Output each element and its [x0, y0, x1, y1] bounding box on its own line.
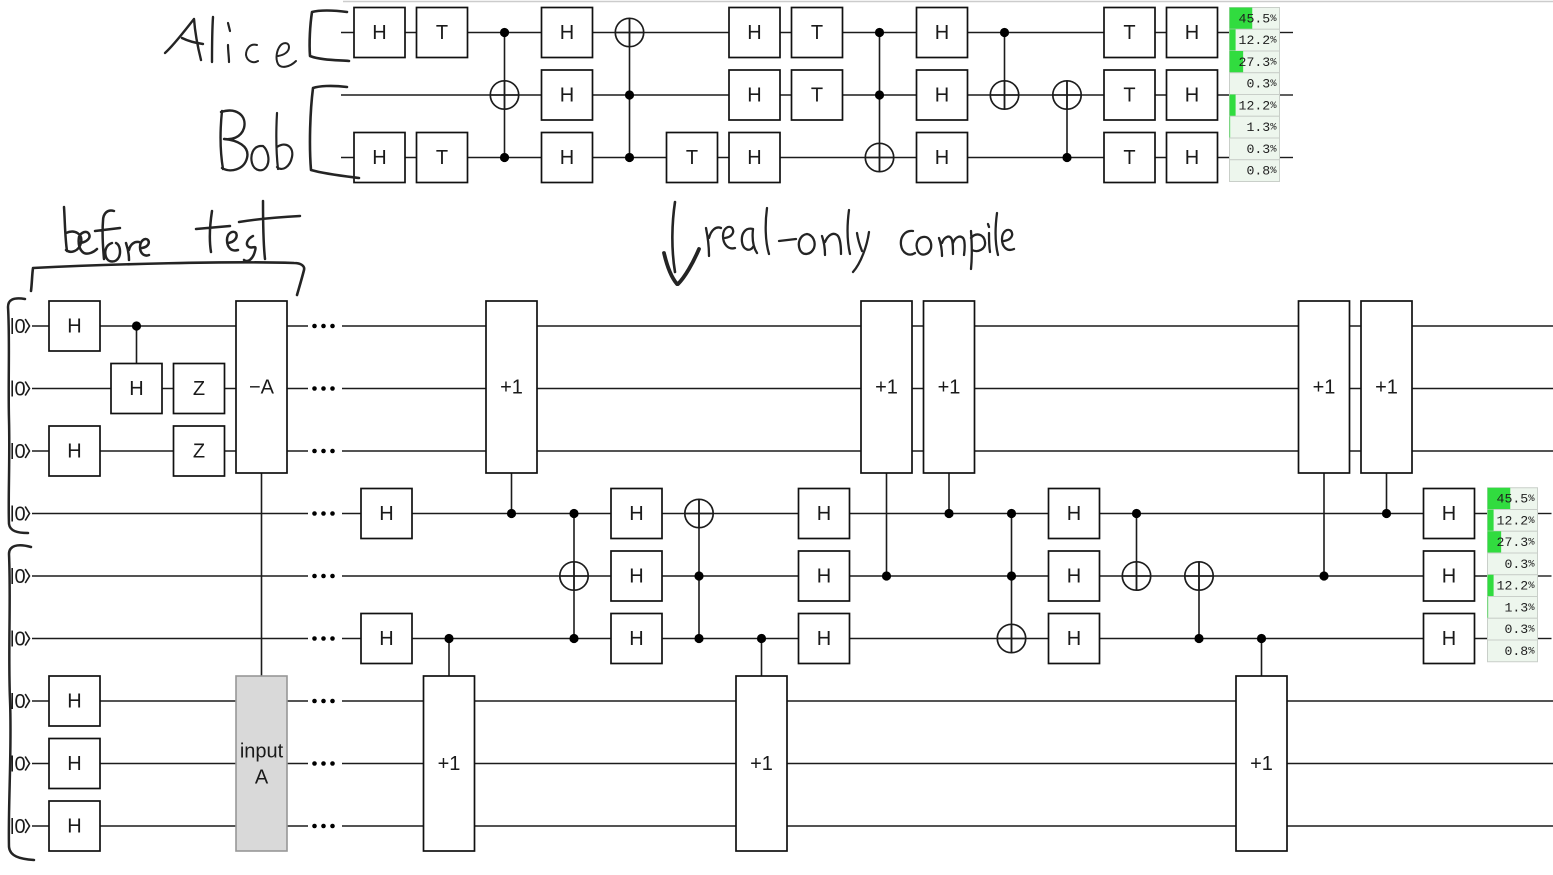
gate H q1 col1 — [354, 8, 405, 58]
gate H q3 col7 — [729, 133, 780, 183]
gate T q2 col8 — [792, 70, 843, 120]
wire b2 left segment — [32, 388, 308, 390]
control q1 col3 — [500, 28, 509, 37]
svg-text:H: H — [379, 503, 393, 525]
gate H b5 mcol17 — [1424, 551, 1475, 601]
gate T q1 col8 — [792, 8, 843, 58]
gate Z b2 precol3 — [174, 364, 225, 414]
svg-text:H: H — [629, 628, 643, 650]
handwriting Alice letter c — [246, 45, 258, 63]
ellipsis wire b5 — [312, 574, 335, 579]
control b6 mcol5 — [694, 634, 703, 643]
gate H b5 mcol4 — [611, 551, 662, 601]
gate H b4 mcol7 — [799, 489, 850, 539]
handwriting real-only — [706, 208, 869, 272]
target q3 col9 — [865, 143, 893, 171]
svg-text:H: H — [1185, 85, 1199, 107]
brace wires b1-b4 — [8, 298, 28, 533]
ket |0> wire b4 — [12, 504, 29, 526]
svg-text:12.2%: 12.2% — [1497, 579, 1536, 594]
svg-text:H: H — [629, 566, 643, 588]
svg-text:+1: +1 — [1250, 753, 1273, 775]
gate +1 b1-b3 mcol15 — [1299, 301, 1350, 473]
ket |0> wire b1 — [12, 316, 29, 338]
svg-text:0: 0 — [14, 441, 25, 463]
target b5 mcol13 — [1185, 562, 1213, 590]
svg-text:H: H — [935, 22, 949, 44]
svg-text:12.2%: 12.2% — [1239, 98, 1278, 113]
CNOT col12 connector — [1066, 81, 1068, 158]
CNOT col9 connector — [879, 33, 881, 172]
control b4 mcol3 — [569, 509, 578, 518]
svg-text:H: H — [379, 628, 393, 650]
svg-text:0: 0 — [14, 504, 25, 526]
svg-text:H: H — [747, 85, 761, 107]
wire b6 main segment — [342, 638, 1488, 640]
wire q3 stub after display — [1280, 157, 1294, 159]
control q2 col9 — [875, 90, 884, 99]
CNOT mcol13 connector — [1198, 562, 1200, 639]
svg-text:H: H — [629, 503, 643, 525]
svg-text:H: H — [935, 147, 949, 169]
gate H q3 col1 — [354, 133, 405, 183]
svg-text:0.3%: 0.3% — [1504, 622, 1535, 637]
target b4 mcol5 — [685, 499, 713, 527]
control b4 mcol12 — [1132, 509, 1141, 518]
svg-text:0.8%: 0.8% — [1246, 164, 1277, 179]
control b6 mcol13 — [1194, 634, 1203, 643]
svg-text:45.5%: 45.5% — [1497, 492, 1536, 507]
gate H b4 mcol0 — [361, 489, 412, 539]
svg-text:−A: −A — [249, 377, 275, 399]
svg-text:+1: +1 — [875, 377, 898, 399]
target b6 mcol10 — [997, 624, 1025, 652]
gate +1 b1-b3 mcol9 — [924, 301, 975, 473]
gate T q1 col13 — [1104, 8, 1155, 58]
connector +1 mcol2 to control b4 — [511, 473, 513, 514]
handwriting Bob letter b — [276, 113, 292, 169]
control q3 col3 — [500, 153, 509, 162]
ket |0> wire b2 — [12, 379, 29, 401]
wire q2 — [341, 94, 1230, 96]
wire b6 stub after display — [1538, 638, 1552, 640]
svg-text:0: 0 — [14, 566, 25, 588]
svg-text:+1: +1 — [1313, 377, 1336, 399]
svg-text:H: H — [1185, 147, 1199, 169]
wire b5 stub after display — [1538, 575, 1552, 577]
gate H b4 mcol11 — [1049, 489, 1100, 539]
gate +1 b7-b9 mcol6 — [736, 676, 787, 851]
gate H q1 col10 — [917, 8, 968, 58]
gate H q2 col4 — [542, 70, 593, 120]
CNOT col5 connector — [629, 18, 631, 157]
wire b1 main segment — [342, 325, 1553, 327]
gate +1 b1-b3 mcol16 — [1361, 301, 1412, 473]
target q2 col3 — [490, 81, 518, 109]
handwriting Bob letter o — [251, 146, 268, 170]
CNOT mcol10 connector — [1011, 514, 1013, 653]
probability display bottom circuit — [1488, 488, 1538, 662]
handwriting Alice letter A — [165, 19, 203, 60]
wire b2 main segment — [342, 388, 1553, 390]
gate H q2 col10 — [917, 70, 968, 120]
gate H b6 mcol17 — [1424, 614, 1475, 664]
wire b4 left segment — [32, 513, 308, 515]
controlled-H connector b1-b2 — [136, 326, 138, 364]
target q1 col5 — [615, 18, 643, 46]
gate +1 b7-b9 mcol14 — [1236, 676, 1287, 851]
svg-text:H: H — [817, 566, 831, 588]
connector +1 mcol1 to control b6 — [448, 639, 450, 677]
wire b7 left segment — [32, 700, 308, 702]
connector +1 mcol9 to control b4 — [948, 473, 950, 514]
control b6 mcol3 — [569, 634, 578, 643]
connector +1 mcol15 to control b5 — [1323, 473, 1325, 576]
ket |0> wire b6 — [12, 629, 29, 651]
connector +1 mcol6 to control b6 — [761, 639, 763, 677]
gate H b4 mcol4 — [611, 489, 662, 539]
handwriting before-test word test — [196, 201, 300, 261]
ellipsis wire b1 — [312, 324, 335, 329]
control q3 col5 — [625, 153, 634, 162]
gate -A b1-b3 — [236, 301, 287, 473]
svg-text:H: H — [129, 378, 143, 400]
wire b9 left segment — [32, 825, 308, 827]
svg-text:H: H — [560, 22, 574, 44]
control q1 col11 — [1000, 28, 1009, 37]
svg-text:H: H — [67, 691, 81, 713]
brace wires b5-b9 — [9, 545, 34, 860]
svg-text:0.3%: 0.3% — [1246, 142, 1277, 157]
wire q1 stub after display — [1280, 32, 1294, 34]
svg-text:0.3%: 0.3% — [1246, 77, 1277, 92]
control b6 mcol1 — [444, 634, 453, 643]
bracket Alice — [310, 11, 349, 62]
gate +1 b1-b3 mcol2 — [486, 301, 537, 473]
svg-text:A: A — [255, 767, 269, 789]
ket |0> wire b9 — [12, 816, 29, 838]
connector +1 mcol14 to control b6 — [1261, 639, 1263, 677]
wire b4 main segment — [342, 513, 1488, 515]
ellipsis wire b6 — [312, 636, 335, 641]
CNOT mcol5 connector — [698, 499, 700, 638]
CNOT mcol3 connector — [573, 514, 575, 639]
ellipsis wire b4 — [312, 511, 335, 516]
svg-text:1.3%: 1.3% — [1504, 600, 1535, 615]
gate T q3 col2 — [417, 133, 468, 183]
ket |0> wire b8 — [12, 754, 29, 776]
svg-text:1.3%: 1.3% — [1246, 120, 1277, 135]
control b4 mcol9 — [944, 509, 953, 518]
handwriting Bob letter B — [221, 111, 248, 171]
gate H b3 precol1 — [49, 426, 100, 476]
ellipsis wire b8 — [312, 761, 335, 766]
gate H b5 mcol11 — [1049, 551, 1100, 601]
control b4 mcol10 — [1007, 509, 1016, 518]
svg-text:H: H — [1067, 503, 1081, 525]
svg-text:+1: +1 — [500, 377, 523, 399]
handwriting Alice letter i — [228, 23, 230, 62]
svg-text:H: H — [817, 628, 831, 650]
ket |0> wire b7 — [12, 691, 29, 713]
control b4 mcol2 — [507, 509, 516, 518]
svg-text:0: 0 — [14, 629, 25, 651]
gate T q3 col13 — [1104, 133, 1155, 183]
svg-text:H: H — [1185, 22, 1199, 44]
control b4 mcol16 — [1382, 509, 1391, 518]
svg-text:0: 0 — [14, 316, 25, 338]
wire b5 left segment — [32, 575, 308, 577]
svg-text:input: input — [240, 741, 284, 763]
svg-text:Z: Z — [193, 378, 205, 400]
control q3 col12 — [1062, 153, 1071, 162]
svg-text:H: H — [1442, 566, 1456, 588]
control b5 mcol15 — [1319, 571, 1328, 580]
control b5 mcol8 — [882, 571, 891, 580]
target q2 col11 — [990, 81, 1018, 109]
CNOT col3 connector — [504, 33, 506, 158]
svg-text:T: T — [811, 85, 823, 107]
control q2 col5 — [625, 90, 634, 99]
svg-text:0.8%: 0.8% — [1504, 644, 1535, 659]
svg-text:12.2%: 12.2% — [1239, 33, 1278, 48]
bracket before-test — [31, 262, 304, 295]
gate H b5 mcol7 — [799, 551, 850, 601]
gate H q2 col7 — [729, 70, 780, 120]
control b5 mcol10 — [1007, 571, 1016, 580]
gate H b9 precol1 — [49, 801, 100, 851]
svg-text:H: H — [1442, 503, 1456, 525]
gate T q1 col2 — [417, 8, 468, 58]
arrow head — [664, 249, 699, 284]
wire b8 left segment — [32, 763, 308, 765]
handwriting before-test word before — [64, 207, 149, 262]
gate H q3 col4 — [542, 133, 593, 183]
gate input A b7-b9 — [236, 676, 287, 851]
control b6 mcol6 — [757, 634, 766, 643]
svg-text:27.3%: 27.3% — [1239, 55, 1278, 70]
svg-text:H: H — [67, 816, 81, 838]
wire b9 main segment — [342, 825, 1553, 827]
wire q2 stub after display — [1280, 94, 1294, 96]
svg-text:H: H — [560, 85, 574, 107]
svg-text:Z: Z — [193, 441, 205, 463]
arrow down — [672, 202, 675, 272]
svg-text:12.2%: 12.2% — [1497, 513, 1536, 528]
svg-text:H: H — [67, 316, 81, 338]
control b1 precol2 — [132, 321, 141, 330]
gate T q2 col13 — [1104, 70, 1155, 120]
svg-text:45.5%: 45.5% — [1239, 11, 1278, 26]
connector +1 mcol8 to control b5 — [886, 473, 888, 576]
gate H q1 col14 — [1167, 8, 1218, 58]
svg-text:+1: +1 — [1375, 377, 1398, 399]
svg-text:0: 0 — [14, 816, 25, 838]
svg-text:H: H — [935, 85, 949, 107]
svg-text:0: 0 — [14, 691, 25, 713]
gate Z b3 precol3 — [174, 426, 225, 476]
svg-text:T: T — [1123, 22, 1135, 44]
control q1 col9 — [875, 28, 884, 37]
ket |0> wire b5 — [12, 566, 29, 588]
gate H b4 mcol17 — [1424, 489, 1475, 539]
ellipsis wire b2 — [312, 386, 335, 391]
svg-text:H: H — [67, 753, 81, 775]
top screenshot border line — [343, 1, 1553, 3]
handwriting compile — [901, 213, 1014, 269]
handwriting Alice letter e — [277, 43, 296, 67]
bracket Bob — [310, 86, 359, 178]
gate H b6 mcol4 — [611, 614, 662, 664]
svg-text:H: H — [372, 22, 386, 44]
gate H b6 mcol7 — [799, 614, 850, 664]
ellipsis wire b7 — [312, 699, 335, 704]
target q2 col12 — [1053, 81, 1081, 109]
gate H q2 col14 — [1167, 70, 1218, 120]
gate H q3 col14 — [1167, 133, 1218, 183]
gate T q3 col6 — [667, 133, 718, 183]
svg-text:H: H — [1442, 628, 1456, 650]
wire b5 main segment — [342, 575, 1488, 577]
CNOT col11 connector — [1004, 33, 1006, 110]
gate H b8 precol1 — [49, 739, 100, 789]
wire b6 left segment — [32, 638, 308, 640]
ellipsis wire b3 — [312, 449, 335, 454]
wire b4 stub after display — [1538, 513, 1552, 515]
wire b7 main segment — [342, 700, 1553, 702]
gate H q3 col10 — [917, 133, 968, 183]
ellipsis wire b9 — [312, 824, 335, 829]
svg-text:+1: +1 — [750, 753, 773, 775]
control b6 mcol14 — [1257, 634, 1266, 643]
svg-text:H: H — [817, 503, 831, 525]
svg-text:T: T — [436, 147, 448, 169]
svg-text:T: T — [1123, 147, 1135, 169]
gate H q1 col7 — [729, 8, 780, 58]
svg-text:H: H — [372, 147, 386, 169]
svg-text:T: T — [686, 147, 698, 169]
svg-text:T: T — [436, 22, 448, 44]
svg-text:+1: +1 — [938, 377, 961, 399]
handwriting Alice letter l — [212, 17, 213, 62]
wire Alice q1 — [341, 32, 1230, 34]
svg-text:27.3%: 27.3% — [1497, 535, 1536, 550]
svg-text:H: H — [747, 22, 761, 44]
connector +1 mcol16 to control b4 — [1386, 473, 1388, 514]
gate H b2 precol2 — [111, 364, 162, 414]
svg-text:H: H — [747, 147, 761, 169]
gate H b1 precol1 — [49, 301, 100, 351]
connector -A to input A — [261, 473, 263, 676]
svg-text:0: 0 — [14, 379, 25, 401]
svg-text:H: H — [1067, 628, 1081, 650]
gate +1 b7-b9 mcol1 — [424, 676, 475, 851]
svg-text:H: H — [560, 147, 574, 169]
wire b1 left segment — [32, 325, 308, 327]
gate H b6 mcol11 — [1049, 614, 1100, 664]
svg-text:H: H — [67, 441, 81, 463]
svg-text:0: 0 — [14, 754, 25, 776]
wire b3 left segment — [32, 450, 308, 452]
probability display top circuit — [1230, 8, 1280, 182]
svg-text:T: T — [1123, 85, 1135, 107]
target b5 mcol3 — [560, 562, 588, 590]
CNOT mcol12 connector — [1136, 514, 1138, 591]
svg-text:+1: +1 — [438, 753, 461, 775]
wire b8 main segment — [342, 763, 1553, 765]
svg-text:0.3%: 0.3% — [1504, 557, 1535, 572]
control b5 mcol5 — [694, 571, 703, 580]
svg-text:H: H — [1067, 566, 1081, 588]
gate H b7 precol1 — [49, 676, 100, 726]
gate H b6 mcol0 — [361, 614, 412, 664]
gate +1 b1-b3 mcol8 — [861, 301, 912, 473]
wire b3 main segment — [342, 450, 1553, 452]
gate H q1 col4 — [542, 8, 593, 58]
wire Bob q3 — [341, 157, 1230, 159]
target b5 mcol12 — [1122, 562, 1150, 590]
svg-text:T: T — [811, 22, 823, 44]
ket |0> wire b3 — [12, 441, 29, 463]
